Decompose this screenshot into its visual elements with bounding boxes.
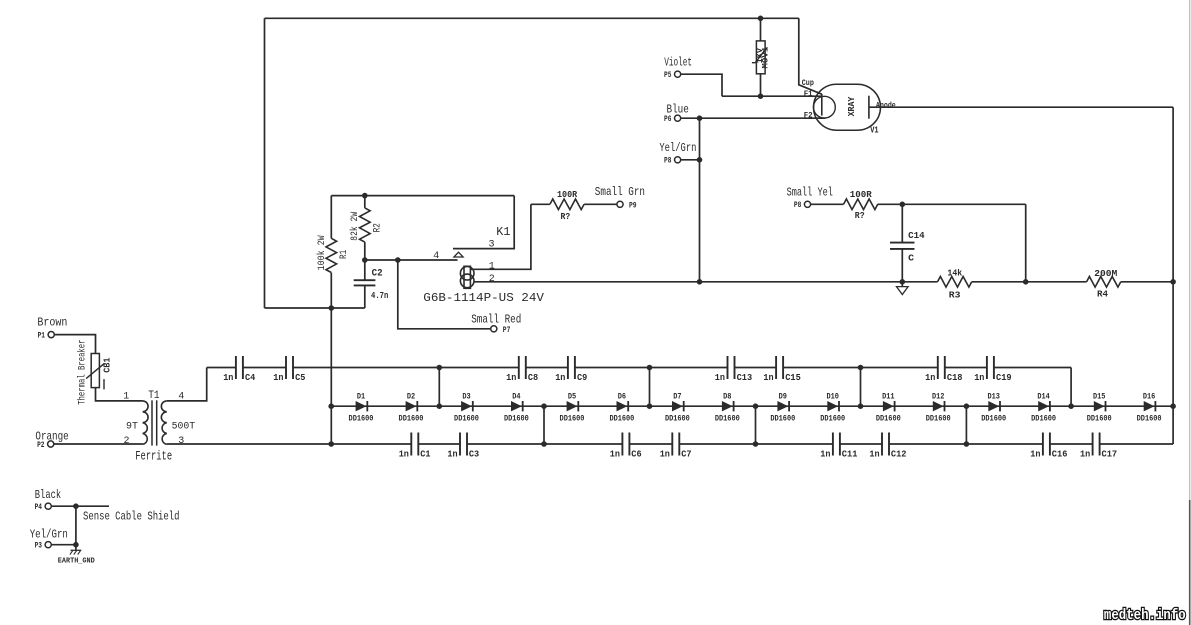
wire P4 Black <box>51 505 109 507</box>
wire Small Grn leads <box>531 203 617 205</box>
svg-text:DD1600: DD1600 <box>1031 415 1056 424</box>
relay K1 contact <box>454 252 463 257</box>
label Thermal Breaker <box>76 340 88 405</box>
label C14 <box>908 231 925 241</box>
label 4.7n <box>371 291 388 301</box>
wire bottom loop <box>265 307 365 309</box>
svg-text:14k: 14k <box>947 269 962 279</box>
diode D7 <box>665 393 690 424</box>
capacitor C9 <box>555 356 587 383</box>
svg-text:100R: 100R <box>557 190 578 200</box>
svg-text:1n: 1n <box>399 450 409 460</box>
wire shield vertical <box>75 506 77 550</box>
connector pin P1 <box>38 332 55 341</box>
pin 2 K1 <box>489 274 495 285</box>
connector pin P7 <box>491 326 511 335</box>
svg-text:C15: C15 <box>785 373 801 383</box>
label R? grn <box>561 212 571 222</box>
svg-text:1n: 1n <box>974 373 984 383</box>
svg-text:1n: 1n <box>1080 450 1090 460</box>
wire C2 leads <box>364 260 366 308</box>
svg-text:100k 2W: 100k 2W <box>316 235 328 270</box>
svg-text:C19: C19 <box>996 373 1012 383</box>
diode D9 <box>770 393 795 424</box>
label 82k 2W <box>349 212 361 241</box>
svg-text:Yel/Grn: Yel/Grn <box>30 527 68 541</box>
wire tap down 1 <box>543 406 545 444</box>
svg-text:D2: D2 <box>407 393 415 402</box>
label 200M <box>1094 269 1117 279</box>
wire tap up 2 <box>649 368 651 407</box>
label R3 <box>949 291 961 301</box>
xray tube cathode bar <box>821 94 823 116</box>
svg-text:Sense Cable Shield: Sense Cable Shield <box>83 510 180 524</box>
resistor R? grn <box>550 199 584 210</box>
svg-text:C14: C14 <box>908 231 925 241</box>
svg-text:K1: K1 <box>496 225 510 239</box>
svg-text:C: C <box>908 253 915 263</box>
svg-text:1n: 1n <box>273 373 283 383</box>
svg-text:1n: 1n <box>715 373 725 383</box>
net label Yel/Grn <box>659 141 696 155</box>
diode D14 <box>1031 393 1056 424</box>
svg-text:Brown: Brown <box>37 316 67 330</box>
wire tap up 1 <box>438 368 440 407</box>
diode D12 <box>926 393 951 424</box>
capacitor C8 <box>506 356 538 383</box>
label 500T <box>172 422 196 433</box>
svg-text:XRAY: XRAY <box>847 96 857 116</box>
wire left loop <box>264 18 266 308</box>
wire tap up 3 <box>860 368 862 407</box>
label 100R grn <box>557 190 578 200</box>
label F1 <box>804 90 813 99</box>
svg-text:P8: P8 <box>794 201 802 210</box>
svg-text:1n: 1n <box>610 450 620 460</box>
capacitor C6 <box>610 433 642 460</box>
wire K1 pin2 rail <box>474 281 1173 283</box>
svg-text:DD1600: DD1600 <box>876 415 901 424</box>
wire P5 Violet <box>681 74 722 96</box>
label 1KV <box>756 48 765 64</box>
svg-text:R2: R2 <box>372 223 383 232</box>
relay K1 coil <box>460 266 474 288</box>
svg-text:DD1600: DD1600 <box>609 415 634 424</box>
wire node mid <box>365 259 458 261</box>
label MOV1 <box>762 46 771 68</box>
svg-text:1n: 1n <box>447 450 457 460</box>
svg-text:D9: D9 <box>779 393 787 402</box>
thermal breaker CB1 <box>86 354 104 390</box>
svg-text:Small Grn: Small Grn <box>595 185 645 199</box>
svg-text:1: 1 <box>123 392 129 403</box>
wire CB1 to T1 pin1 <box>96 388 143 401</box>
svg-text:P5: P5 <box>664 71 672 80</box>
label F2 <box>804 112 813 121</box>
svg-text:R?: R? <box>855 211 865 221</box>
capacitor C15 <box>763 356 800 383</box>
capacitor C4 <box>223 356 256 383</box>
wire P7 Small Red <box>398 260 491 329</box>
svg-text:D10: D10 <box>827 393 840 402</box>
wire F1 <box>722 95 822 97</box>
svg-text:C3: C3 <box>469 450 479 460</box>
diode D5 <box>560 393 585 424</box>
wire anode <box>869 106 1173 108</box>
svg-text:D7: D7 <box>673 393 681 402</box>
wire tap up 4 <box>1070 368 1072 407</box>
wire K1 pin1 <box>470 204 531 269</box>
svg-text:1n: 1n <box>763 373 773 383</box>
label K1 <box>496 225 510 239</box>
svg-text:C11: C11 <box>842 450 858 460</box>
wire P1 to CB1 <box>54 335 95 354</box>
svg-text:D4: D4 <box>512 393 520 402</box>
svg-text:Small Yel: Small Yel <box>787 186 833 200</box>
connector pin P2 <box>37 441 54 450</box>
svg-text:500T: 500T <box>172 422 196 433</box>
svg-text:Ferrite: Ferrite <box>135 449 172 464</box>
svg-text:P4: P4 <box>35 503 43 512</box>
svg-text:DD1600: DD1600 <box>454 415 479 424</box>
svg-text:DD1600: DD1600 <box>926 415 951 424</box>
diode D2 <box>399 393 424 424</box>
label 14k <box>947 269 962 279</box>
label XRAY <box>847 96 857 116</box>
svg-text:R3: R3 <box>949 291 961 301</box>
wire R1 top lead <box>330 196 332 239</box>
label Ferrite <box>135 449 172 464</box>
svg-text:F2: F2 <box>804 112 813 121</box>
xray tube anode bar <box>868 96 870 119</box>
wire K1 pin3 <box>453 196 514 249</box>
resistor R? yel <box>844 199 878 210</box>
wire R2 leads <box>364 196 366 260</box>
label Anode <box>876 101 896 110</box>
svg-text:DD1600: DD1600 <box>715 415 740 424</box>
capacitor C5 <box>273 356 305 383</box>
label T1 <box>148 390 160 402</box>
diode D13 <box>981 393 1006 424</box>
svg-text:3: 3 <box>178 436 184 447</box>
svg-text:D6: D6 <box>618 393 626 402</box>
svg-text:P8: P8 <box>664 157 672 166</box>
svg-text:200M: 200M <box>1094 269 1117 279</box>
pin 1 K1 <box>489 261 495 272</box>
svg-text:P3: P3 <box>35 542 43 551</box>
wire top cap rail <box>207 367 1071 369</box>
label 100k 2W <box>316 235 328 270</box>
wire tap down 2 <box>755 406 757 444</box>
svg-text:EARTH_GND: EARTH_GND <box>58 557 95 565</box>
pin 2 T1 <box>123 436 129 447</box>
pin 1 T1 <box>123 392 129 403</box>
svg-text:DD1600: DD1600 <box>770 415 795 424</box>
earth ground EARTH_GND <box>58 550 95 565</box>
wire P3 Yel/Grn <box>51 544 76 546</box>
svg-text:D15: D15 <box>1093 393 1106 402</box>
xray tube V1 body <box>814 84 881 130</box>
pin 3 T1 <box>178 436 184 447</box>
svg-text:F1: F1 <box>804 90 813 99</box>
svg-text:DD1600: DD1600 <box>504 415 529 424</box>
label R? yel <box>855 211 865 221</box>
svg-text:R1: R1 <box>339 250 350 259</box>
svg-text:Anode: Anode <box>876 101 896 110</box>
capacitor C16 <box>1030 433 1067 460</box>
pin 4 T1 <box>178 392 184 403</box>
net label Orange <box>35 430 68 444</box>
svg-text:D5: D5 <box>568 393 576 402</box>
wire P2 Orange <box>54 443 143 445</box>
svg-text:DD1600: DD1600 <box>981 415 1006 424</box>
svg-text:C13: C13 <box>737 373 753 383</box>
xray tube filament circle <box>814 96 836 118</box>
resistor R3 <box>938 277 972 288</box>
svg-text:R4: R4 <box>1097 290 1109 300</box>
svg-text:4: 4 <box>178 392 184 403</box>
wire T1 pin4 <box>167 368 207 401</box>
svg-text:T1: T1 <box>148 390 160 402</box>
label C2 <box>372 268 383 279</box>
page edge artifact <box>1189 0 1191 625</box>
wire bottom cap rail <box>167 443 1173 445</box>
capacitor C12 <box>869 433 906 460</box>
capacitor C14 <box>890 243 915 249</box>
svg-text:DD1600: DD1600 <box>665 415 690 424</box>
svg-text:C4: C4 <box>245 373 256 383</box>
svg-text:DD1600: DD1600 <box>1087 415 1112 424</box>
svg-text:C1: C1 <box>420 450 431 460</box>
svg-text:DD1600: DD1600 <box>560 415 585 424</box>
svg-text:1n: 1n <box>925 373 935 383</box>
svg-text:V1: V1 <box>870 125 879 135</box>
svg-text:C18: C18 <box>947 373 963 383</box>
svg-text:1: 1 <box>489 261 495 272</box>
connector pin P6 <box>664 115 681 124</box>
wire MOV bottom stub <box>760 74 762 96</box>
resistor R1 <box>326 238 337 272</box>
label 100R yel <box>850 190 873 200</box>
resistor R4 <box>1087 277 1121 288</box>
svg-text:1n: 1n <box>660 450 670 460</box>
svg-text:medteh.info: medteh.info <box>1104 608 1186 624</box>
svg-text:D12: D12 <box>932 393 945 402</box>
svg-text:C7: C7 <box>681 450 691 460</box>
svg-text:100R: 100R <box>850 190 873 200</box>
capacitor C1 <box>399 433 431 460</box>
svg-text:C16: C16 <box>1052 450 1068 460</box>
svg-text:D8: D8 <box>723 393 731 402</box>
pin 4 K1 <box>433 251 439 262</box>
svg-text:Black: Black <box>35 488 61 502</box>
svg-text:R?: R? <box>561 212 571 222</box>
diode D4 <box>504 393 529 424</box>
label G6B-1114P-US 24V <box>423 291 544 305</box>
net label Small Red <box>471 313 521 327</box>
svg-text:MOV1: MOV1 <box>762 46 771 68</box>
svg-text:Cup: Cup <box>802 79 814 88</box>
label R2 <box>372 223 383 232</box>
capacitor C2 <box>354 280 376 285</box>
connector pin P5 <box>664 71 681 80</box>
diode D1 <box>349 393 374 424</box>
net label Brown <box>37 316 67 330</box>
svg-text:D14: D14 <box>1037 393 1050 402</box>
capacitor C17 <box>1080 433 1117 460</box>
svg-text:1n: 1n <box>1030 450 1040 460</box>
label R1 <box>339 250 350 259</box>
svg-text:82k 2W: 82k 2W <box>349 212 361 241</box>
transformer T1 core <box>152 400 157 445</box>
svg-text:1n: 1n <box>555 373 565 383</box>
net label Blue <box>667 103 689 117</box>
diode D6 <box>609 393 634 424</box>
svg-text:2: 2 <box>489 274 495 285</box>
wire Blue vertical <box>699 118 701 282</box>
svg-text:2: 2 <box>123 436 129 447</box>
svg-text:9T: 9T <box>126 422 138 433</box>
wire diode rail <box>331 405 1173 407</box>
connector pin P3 <box>35 542 52 551</box>
label R4 <box>1097 290 1109 300</box>
net label Small Grn <box>595 185 645 199</box>
net label Violet <box>664 56 692 70</box>
svg-text:4: 4 <box>433 251 439 262</box>
diode D3 <box>454 393 479 424</box>
ground chassis <box>897 282 909 295</box>
diode D15 <box>1087 393 1112 424</box>
connector pin P8 <box>664 157 681 166</box>
capacitor C7 <box>660 433 692 460</box>
svg-text:Violet: Violet <box>664 56 692 70</box>
svg-text:D16: D16 <box>1143 393 1156 402</box>
svg-text:D1: D1 <box>357 393 365 402</box>
capacitor C13 <box>715 356 752 383</box>
net label Yel/Grn <box>30 527 68 541</box>
connector pin P9 <box>617 201 637 210</box>
svg-text:4.7n: 4.7n <box>371 291 388 301</box>
svg-text:D13: D13 <box>988 393 1001 402</box>
connector pin P4 <box>35 503 52 512</box>
svg-text:3: 3 <box>489 239 495 250</box>
diode D10 <box>820 393 845 424</box>
net label Black <box>35 488 61 502</box>
svg-text:1n: 1n <box>223 373 233 383</box>
transformer T1 secondary <box>161 401 166 444</box>
transformer T1 primary <box>143 401 148 444</box>
wire right vertical <box>1172 107 1174 444</box>
wire F2 Blue <box>681 117 826 119</box>
svg-text:D11: D11 <box>882 393 895 402</box>
svg-text:CB1: CB1 <box>103 357 113 373</box>
svg-text:C2: C2 <box>372 268 383 279</box>
capacitor C3 <box>447 433 479 460</box>
svg-text:DD1600: DD1600 <box>820 415 845 424</box>
connector pin P8 <box>794 201 811 210</box>
svg-text:P7: P7 <box>503 326 511 335</box>
svg-text:D3: D3 <box>462 393 470 402</box>
svg-text:Orange: Orange <box>35 430 68 444</box>
svg-text:DD1600: DD1600 <box>399 415 424 424</box>
svg-text:C5: C5 <box>295 373 305 383</box>
diode D16 <box>1137 393 1162 424</box>
diode D8 <box>715 393 740 424</box>
net label Sense Cable Shield <box>83 510 180 524</box>
label C <box>908 253 915 263</box>
svg-text:C17: C17 <box>1102 450 1118 460</box>
svg-text:Thermal Breaker: Thermal Breaker <box>76 340 88 405</box>
svg-text:Blue: Blue <box>667 103 689 117</box>
varistor MOV1 <box>752 41 767 74</box>
label 9T <box>126 422 138 433</box>
wire Yel/Grn <box>681 159 700 161</box>
svg-text:C6: C6 <box>631 450 641 460</box>
svg-text:C9: C9 <box>577 373 587 383</box>
svg-text:P9: P9 <box>629 202 637 211</box>
svg-text:P1: P1 <box>38 332 46 341</box>
capacitor C19 <box>974 356 1011 383</box>
svg-text:DD1600: DD1600 <box>349 415 374 424</box>
watermark medteh.info <box>1104 608 1186 624</box>
capacitor C11 <box>820 433 858 460</box>
wire MOV top stub <box>760 18 762 41</box>
svg-text:C8: C8 <box>528 373 538 383</box>
resistor R2 <box>360 208 371 242</box>
svg-text:G6B-1114P-US 24V: G6B-1114P-US 24V <box>423 291 544 305</box>
svg-text:DD1600: DD1600 <box>1137 415 1162 424</box>
label CB1 <box>103 357 113 373</box>
diode D11 <box>876 393 901 424</box>
wire cup drop <box>799 18 822 94</box>
wire top loop <box>265 17 799 19</box>
svg-text:Small Red: Small Red <box>471 313 521 327</box>
wire Small Yel vertical <box>1025 204 1027 281</box>
label V1 <box>870 125 879 135</box>
label Cup <box>802 79 814 88</box>
svg-text:C12: C12 <box>891 450 907 460</box>
svg-text:1n: 1n <box>869 450 879 460</box>
wire C14 leads <box>901 204 903 281</box>
wire control top <box>331 195 514 197</box>
net label Small Yel <box>787 186 833 200</box>
wire left multiplier vertical <box>330 273 332 444</box>
svg-text:Yel/Grn: Yel/Grn <box>659 141 696 155</box>
pin 3 K1 <box>489 239 495 250</box>
wire Small Yel leads <box>811 203 1026 205</box>
capacitor C18 <box>925 356 962 383</box>
wire tap down 3 <box>965 406 967 444</box>
svg-text:1n: 1n <box>506 373 516 383</box>
svg-text:1n: 1n <box>820 450 830 460</box>
